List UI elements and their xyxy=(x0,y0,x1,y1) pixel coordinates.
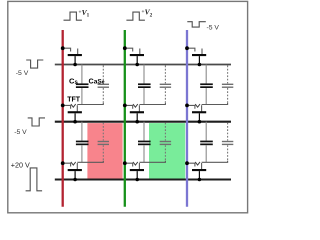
pixel node wire (column 3) xyxy=(202,161,228,163)
storage capacitor Cs (column 3) xyxy=(200,65,213,105)
storage capacitor Cs (column 2) xyxy=(138,122,151,163)
svg-text:+20 V: +20 V xyxy=(11,161,30,170)
transistor Q01 (TFT) xyxy=(63,48,82,64)
gate line G1 (row 1 scan line) xyxy=(55,64,231,66)
column drive pulse +V1 xyxy=(64,12,82,20)
green pixel (selected, row 3 / column 2) xyxy=(149,123,185,179)
junction dot: Q03 source on data line xyxy=(185,46,189,50)
junction dot: Q02 gate on scan line xyxy=(135,63,139,67)
transistor Q11 (TFT) xyxy=(63,104,82,122)
junction dot: Q11 source on data line xyxy=(61,104,65,108)
pixel node wire (column 1) xyxy=(77,161,103,163)
column drive pulse +V2 xyxy=(126,12,144,20)
junction dot: Q23 source on data line xyxy=(185,161,189,165)
junction dot: Q11 gate on scan line xyxy=(73,120,77,124)
transistor Q22 (TFT) xyxy=(125,162,144,180)
pixel node wire (column 3) xyxy=(202,103,228,105)
junction dot: Q22 gate on scan line xyxy=(135,178,139,182)
selenium capacitor CaSe (column 2, dashed) xyxy=(160,123,171,163)
junction dot: Q12 gate on scan line xyxy=(135,120,139,124)
selenium capacitor CaSe (column 3, dashed) xyxy=(222,123,233,163)
row 3 select pulse +20 V xyxy=(26,168,42,191)
selenium capacitor CaSe (column 2, dashed) xyxy=(160,66,171,105)
storage capacitor Cs (column 3) xyxy=(200,122,213,163)
svg-text:-5 V: -5 V xyxy=(14,129,27,136)
junction dot: Q23 gate on scan line xyxy=(198,178,202,182)
transistor Q13 (TFT) xyxy=(187,104,206,122)
junction dot: Q02 source on data line xyxy=(123,46,127,50)
svg-text:-5 V: -5 V xyxy=(16,70,29,77)
svg-text:-5 V: -5 V xyxy=(207,25,220,32)
transistor Q23 (TFT) xyxy=(187,162,206,180)
junction dot: Q03 gate on scan line xyxy=(198,63,202,67)
row 1 gate pulse -5 V xyxy=(26,60,43,68)
junction dot: Q22 source on data line xyxy=(123,161,127,165)
transistor Q12 (TFT) xyxy=(125,104,144,122)
column 3 drive pulse -5 V xyxy=(187,22,206,27)
selenium capacitor CaSe (column 3, dashed) xyxy=(222,66,233,105)
storage capacitor Cs (column 1) xyxy=(76,122,89,163)
gate line G3 (row 3 scan line) xyxy=(55,178,231,180)
pixel node wire (column 2) xyxy=(139,103,165,105)
row 2 gate pulse -5 V xyxy=(28,118,45,126)
storage capacitor Cs (column 1) xyxy=(76,65,89,105)
pixel node wire (column 2) xyxy=(139,161,165,163)
red pixel (selected, row 3 / column 1) xyxy=(87,123,122,179)
data line D1 red xyxy=(62,30,64,207)
transistor Q21 (TFT) xyxy=(63,162,82,180)
junction dot: Q21 source on data line xyxy=(61,161,65,165)
junction dot: Q21 gate on scan line xyxy=(73,178,77,182)
selenium capacitor CaSe (column 1, dashed) xyxy=(98,66,109,105)
junction dot: Q13 gate on scan line xyxy=(198,120,202,124)
gate line G2 (row 2 scan line) xyxy=(55,121,231,123)
border frame xyxy=(8,1,248,212)
pixel node wire (column 1) xyxy=(77,103,103,105)
junction dot: Q12 source on data line xyxy=(123,104,127,108)
junction dot: Q01 source on data line xyxy=(61,46,65,50)
storage capacitor Cs (column 2) xyxy=(138,65,151,105)
junction dot: Q01 gate on scan line xyxy=(73,63,77,67)
transistor Q03 (TFT) xyxy=(187,48,206,64)
selenium capacitor CaSe (column 1, dashed) xyxy=(98,123,109,163)
data line D3 blue xyxy=(186,30,188,207)
svg-text:TFT: TFT xyxy=(67,97,81,104)
data line D2 green xyxy=(124,30,126,207)
transistor Q02 (TFT) xyxy=(125,48,144,64)
junction dot: Q13 source on data line xyxy=(185,104,189,108)
